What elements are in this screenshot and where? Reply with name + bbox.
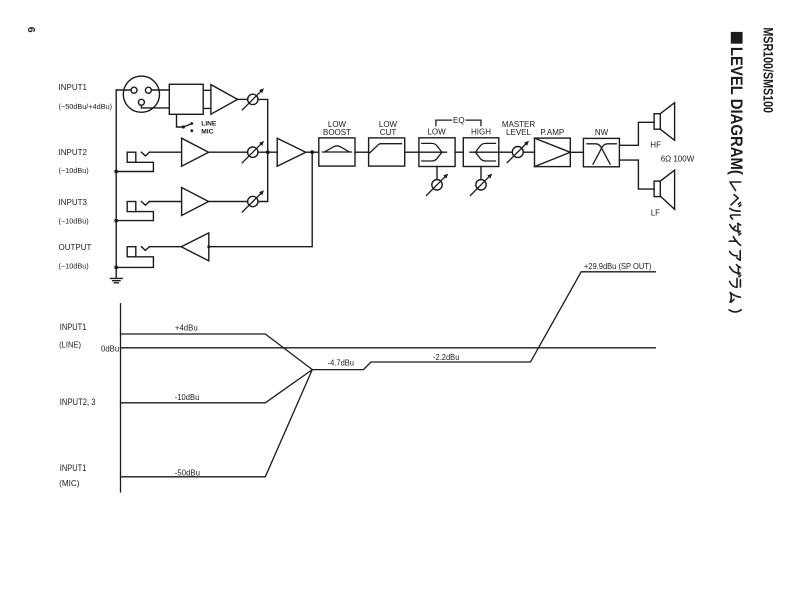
pot VR3 [242,190,264,212]
svg-text:MSR100/SMS100: MSR100/SMS100 [760,27,775,113]
wire eq LOW to eq HIGH [455,151,463,153]
wire J2 to A2 [149,151,181,153]
svg-text:LOW: LOW [427,128,446,137]
connector J2 jack INPUT2 [116,152,153,171]
node S (sum junction) [266,150,270,154]
label LF [651,208,660,217]
op-amp A5 (line out, points left) [181,233,210,261]
label +29.9dBu SP OUT [584,262,652,271]
label -50dBu [175,467,200,477]
svg-text:(−50dBu/+4dBu): (−50dBu/+4dBu) [59,102,113,111]
op-amp A2 [182,138,209,166]
wire node T down to output amp [209,152,312,247]
op-amp A3 [182,188,209,216]
wire eq HIGH to VR6 [499,151,513,153]
svg-text:MIC: MIC [201,129,213,136]
connector J4 jack OUTPUT [116,247,153,268]
wire A4 to LOW BOOST [306,151,319,153]
header title katakana (vertical, drawn) [729,182,741,312]
wire VR2 to node S [258,151,277,153]
wire J4 to A5 [149,246,181,248]
label LINE [201,120,217,127]
svg-text:LINE: LINE [201,120,217,127]
trace main out [312,272,655,370]
label INPUT2,3 row [60,397,96,407]
wire LOW BOOST to LOW CUT [355,151,369,153]
svg-text:OUTPUT: OUTPUT [59,243,92,252]
svg-text:CUT: CUT [380,128,397,137]
wire LOW CUT to EQ LOW [405,151,419,153]
speaker LF [654,170,675,209]
svg-text:0dBu: 0dBu [101,344,120,353]
svg-text:INPUT2: INPUT2 [59,148,88,157]
wire A3 to VR3 [209,201,248,203]
label HIGH (EQ) [471,128,491,137]
eq HIGH box [463,138,499,167]
pot VR2 [242,141,264,163]
node bus-jack3 [114,219,118,223]
filter LOW BOOST box [319,138,355,166]
svg-text:HF: HF [650,140,661,149]
head amp box U1 [169,84,203,114]
crossover NW box [583,138,619,166]
ground [111,278,123,282]
label 6ohm 100W [661,155,695,164]
label INPUT2 [59,148,89,175]
wire XLR pin3 to head amp [141,105,169,108]
svg-text:NW: NW [595,128,609,137]
header model text MSR100/SMS100 (vertical) [760,27,775,113]
svg-text:LF: LF [651,208,660,217]
switch SW1 LINE/MIC [177,114,194,132]
label INPUT1 [59,83,113,111]
node T (output branch) [310,150,314,154]
filter LOW CUT box [369,138,405,166]
wire NW to HF speaker [619,122,654,145]
EQ bracket [436,120,481,126]
label +4dBu [175,322,198,332]
label MASTER LEVEL [502,120,536,137]
label INPUT1 LINE row [59,322,86,349]
power amp box U2 [535,138,571,167]
label P.AMP [540,128,564,137]
header title LEVEL DIAGRAM (vertical) [727,32,746,175]
svg-text:(−10dBu): (−10dBu) [59,262,89,271]
svg-text:6Ω 100W: 6Ω 100W [661,155,695,164]
svg-text:-2.2dBu: -2.2dBu [433,352,460,362]
svg-text:LEVEL: LEVEL [506,128,531,137]
svg-text:(LINE): (LINE) [59,339,81,349]
trace LINE +4dBu [121,334,313,370]
svg-text:+29.9dBu (SP OUT): +29.9dBu (SP OUT) [584,262,652,271]
connector J3 jack INPUT3 [116,202,153,221]
graph 0dBu line [121,347,656,349]
label LOW BOOST [323,120,351,137]
label NW [595,128,609,137]
svg-text:(MIC): (MIC) [59,478,80,488]
svg-text:-50dBu: -50dBu [175,467,200,477]
svg-text:-4.7dBu: -4.7dBu [328,357,355,367]
label 0dBu [101,344,120,353]
connector J1 XLR INPUT1 [123,76,159,112]
wire XLR pin2 to head amp [151,89,169,91]
trace INPUT2,3 -10dBu [121,370,313,403]
label -2.2dBu [433,352,460,362]
wire eq HIGH to pot VR5 [480,167,482,180]
label MIC [201,129,213,136]
wire J3 to A3 [149,201,181,203]
speaker HF [654,103,675,141]
op-amp A1 [211,85,238,115]
label INPUT3 [59,198,89,226]
wire VR1 to sum bus [258,99,268,152]
svg-text:(−10dBu): (−10dBu) [59,166,89,175]
wire NW to LF speaker [619,160,654,189]
label -4.7dBu [328,357,355,367]
label HF [650,140,661,149]
svg-text:BOOST: BOOST [323,128,351,137]
trace MIC -50dBu [121,370,313,477]
svg-text:INPUT1: INPUT1 [60,322,87,332]
pot VR5 [470,174,492,196]
node bus-jack4 [114,266,118,270]
label LOW CUT [379,120,398,137]
pot VR4 [426,174,448,196]
pot VR1 [242,88,264,110]
svg-text:+4dBu: +4dBu [175,322,198,332]
svg-text:-10dBu: -10dBu [175,392,200,402]
page number 6 (rotated) [25,27,37,33]
wire VR6 to P.AMP [523,151,534,153]
svg-text:6: 6 [25,27,37,33]
svg-text:LEVEL DIAGRAM(: LEVEL DIAGRAM( [727,47,746,175]
label INPUT1 MIC row [59,463,86,488]
wire VR3 up to sum bus [258,152,268,201]
eq LOW box [419,138,455,167]
wire ground bus [115,90,117,277]
wire A2 to VR2 [209,151,248,153]
node bus-jack2 [114,170,118,174]
label -10dBu [175,392,200,402]
svg-text:INPUT1: INPUT1 [60,463,87,473]
pot VR6 master level [507,141,529,163]
svg-text:P.AMP: P.AMP [540,128,564,137]
wire eq LOW to pot VR4 [436,167,438,180]
label OUTPUT [59,243,92,271]
label LOW (EQ) [427,128,446,137]
wire XLR pin1 to bus [116,89,131,91]
svg-text:EQ: EQ [453,116,465,125]
wire head amp to A1 (two leads) [203,90,211,108]
svg-text:INPUT3: INPUT3 [59,198,88,207]
svg-text:INPUT1: INPUT1 [59,83,88,92]
svg-text:INPUT2, 3: INPUT2, 3 [60,397,96,407]
graph axis [120,304,122,492]
op-amp A4 summing [277,138,306,166]
svg-text:HIGH: HIGH [471,128,491,137]
wire P.AMP to NW [570,151,583,153]
wire A1 to VR1 [238,98,248,100]
svg-text:(−10dBu): (−10dBu) [59,217,89,226]
label EQ [453,116,465,125]
